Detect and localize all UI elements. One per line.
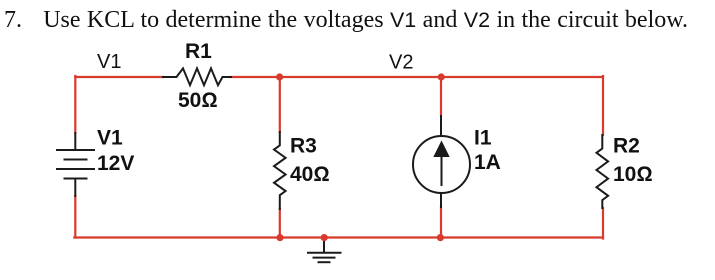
- svg-text:10Ω: 10Ω: [613, 163, 653, 186]
- svg-text:1A: 1A: [474, 151, 501, 174]
- junction dot at ground: [321, 234, 328, 241]
- wire I1 branch lower: [440, 207, 442, 238]
- wire R3 branch upper: [279, 77, 281, 132]
- svg-text:I1: I1: [474, 127, 492, 150]
- wire I1 branch upper: [440, 77, 442, 116]
- wire right rail upper: [602, 76, 604, 135]
- junction dot top at I1: [438, 73, 445, 80]
- wire top-right segment: [231, 76, 603, 78]
- resistor R3: [274, 132, 286, 209]
- junction dot bottom at R3: [276, 234, 283, 241]
- wire left rail lower: [74, 196, 76, 238]
- current source I1: [413, 116, 470, 207]
- resistor R1: [163, 68, 231, 85]
- svg-text:R3: R3: [290, 135, 317, 158]
- svg-text:40Ω: 40Ω: [290, 163, 330, 186]
- battery V1: [57, 133, 94, 196]
- svg-text:V1: V1: [97, 127, 123, 150]
- ground: [308, 238, 341, 262]
- wire left rail upper: [74, 76, 76, 133]
- svg-text:50Ω: 50Ω: [178, 89, 218, 112]
- wire top-left segment: [75, 76, 163, 78]
- svg-text:V2: V2: [389, 52, 413, 74]
- svg-text:R1: R1: [185, 40, 212, 63]
- wire right rail lower: [602, 208, 604, 239]
- svg-text:R2: R2: [613, 135, 640, 158]
- resistor R2: [597, 135, 609, 208]
- wire bottom rail: [74, 236, 603, 238]
- junction node V2 top (dot): [276, 73, 283, 80]
- wire R3 branch lower: [279, 209, 281, 238]
- svg-text:12V: 12V: [97, 152, 134, 175]
- junction dot bottom at I1: [437, 234, 444, 241]
- svg-text:V1: V1: [97, 51, 121, 73]
- title text: [4, 7, 688, 34]
